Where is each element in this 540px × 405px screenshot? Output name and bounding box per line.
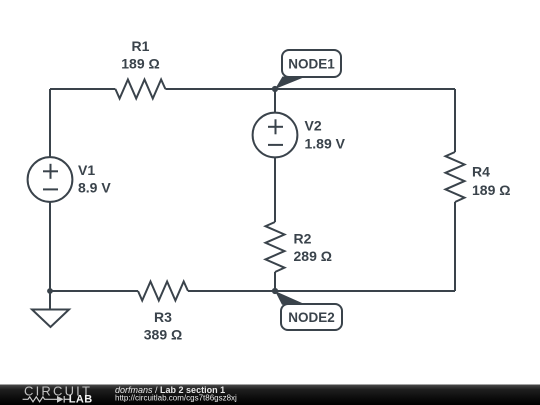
svg-text:V1: V1 [78, 162, 95, 178]
wire left-lower [49, 202, 51, 291]
wire middle-lower [274, 272, 276, 291]
svg-text:1.89 V: 1.89 V [305, 136, 346, 152]
resistor R2 [266, 222, 332, 272]
wire right-lower [454, 202, 456, 291]
svg-text:189 Ω: 189 Ω [121, 56, 159, 72]
wire bottom-left [50, 290, 138, 292]
wire middle [274, 157, 276, 222]
wire top-right [165, 88, 455, 90]
wire right-upper [454, 89, 456, 152]
svg-text:R3: R3 [154, 309, 172, 325]
svg-text:389 Ω: 389 Ω [144, 327, 182, 343]
ground [32, 288, 69, 327]
svg-text:8.9 V: 8.9 V [78, 180, 111, 196]
node NODE1 [272, 50, 341, 92]
wire bottom-right [188, 290, 455, 292]
footer bar [0, 385, 540, 405]
resistor R1 [115, 38, 165, 99]
wire left [49, 89, 51, 157]
svg-text:V2: V2 [305, 118, 322, 134]
svg-text:R2: R2 [294, 231, 312, 247]
logo schematic line [23, 396, 70, 403]
voltage source V1 [28, 157, 112, 202]
svg-text:LAB: LAB [69, 394, 93, 405]
wire middle-upper [274, 89, 276, 113]
svg-text:NODE2: NODE2 [288, 310, 335, 325]
svg-text:189 Ω: 189 Ω [472, 182, 510, 198]
svg-text:R1: R1 [132, 38, 150, 54]
svg-text:R4: R4 [472, 164, 490, 180]
voltage source V2 [253, 113, 346, 158]
resistor R4 [446, 152, 511, 202]
node NODE2 [272, 288, 342, 330]
resistor R3 [138, 282, 188, 343]
wire top-left [50, 88, 115, 90]
svg-text:NODE1: NODE1 [288, 57, 335, 72]
svg-text:http://circuitlab.com/cgs7t86g: http://circuitlab.com/cgs7t86gsz8xj [115, 393, 237, 402]
svg-text:289 Ω: 289 Ω [294, 248, 332, 264]
